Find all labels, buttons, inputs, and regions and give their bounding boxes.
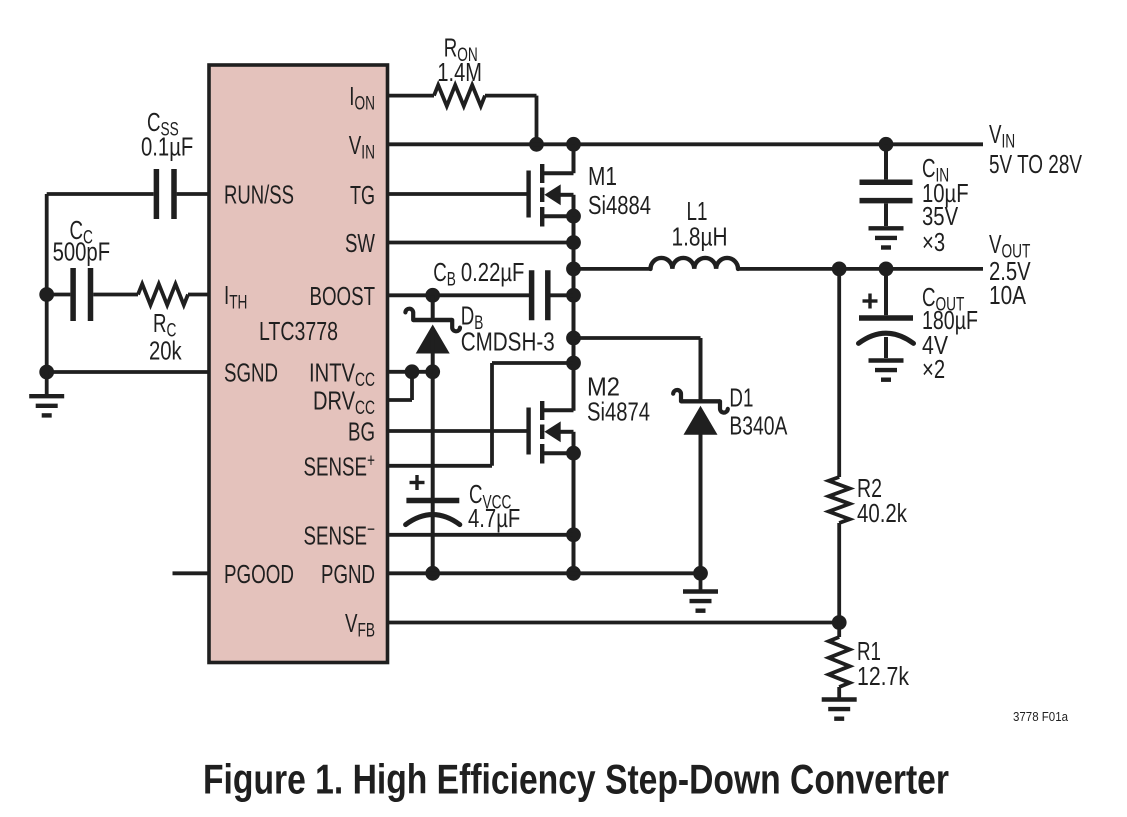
- svg-text:V: V: [989, 119, 1002, 149]
- svg-text:20k: 20k: [149, 336, 182, 366]
- svg-text:SENSE: SENSE: [304, 520, 368, 550]
- svg-text:10A: 10A: [989, 280, 1027, 310]
- svg-text:M1: M1: [588, 161, 617, 191]
- svg-text:PGND: PGND: [321, 559, 375, 589]
- svg-text:V: V: [989, 229, 1002, 259]
- svg-text:1.4M: 1.4M: [437, 57, 482, 87]
- svg-text:PGOOD: PGOOD: [224, 559, 294, 589]
- svg-text:40.2k: 40.2k: [857, 498, 908, 528]
- svg-text:×2: ×2: [922, 354, 945, 384]
- svg-text:LTC3778: LTC3778: [259, 316, 338, 346]
- svg-text:IN: IN: [361, 142, 375, 163]
- svg-text:B340A: B340A: [729, 411, 787, 441]
- svg-text:ON: ON: [355, 94, 376, 115]
- svg-text:5V TO 28V: 5V TO 28V: [989, 149, 1082, 179]
- svg-text:RUN/SS: RUN/SS: [224, 180, 294, 210]
- svg-text:INTV: INTV: [309, 357, 356, 387]
- svg-text:B: B: [447, 270, 456, 291]
- svg-text:×3: ×3: [922, 227, 945, 257]
- svg-text:SW: SW: [345, 228, 375, 258]
- svg-text:V: V: [349, 130, 362, 160]
- svg-text:SGND: SGND: [224, 357, 278, 387]
- svg-text:0.1µF: 0.1µF: [141, 131, 193, 161]
- svg-text:12.7k: 12.7k: [857, 661, 910, 691]
- svg-text:BOOST: BOOST: [310, 281, 376, 311]
- svg-text:V: V: [345, 608, 358, 638]
- svg-text:CC: CC: [355, 370, 375, 391]
- svg-text:C: C: [433, 257, 447, 287]
- svg-text:Si4884: Si4884: [588, 190, 651, 220]
- svg-text:D1: D1: [729, 383, 753, 413]
- svg-text:DRV: DRV: [313, 386, 355, 416]
- svg-text:CMDSH-3: CMDSH-3: [461, 326, 555, 356]
- svg-text:+: +: [367, 450, 375, 471]
- svg-text:3778 F01a: 3778 F01a: [1013, 709, 1069, 724]
- svg-text:Si4874: Si4874: [587, 397, 650, 427]
- svg-text:R: R: [153, 308, 167, 338]
- svg-text:TH: TH: [229, 293, 247, 314]
- svg-text:BG: BG: [348, 417, 375, 447]
- svg-text:SENSE: SENSE: [304, 451, 368, 481]
- svg-text:FB: FB: [358, 621, 376, 642]
- svg-text:500pF: 500pF: [53, 237, 111, 267]
- svg-text:0.22µF: 0.22µF: [461, 257, 525, 287]
- svg-text:−: −: [367, 519, 375, 540]
- svg-text:TG: TG: [350, 180, 375, 210]
- svg-text:4.7µF: 4.7µF: [468, 503, 520, 533]
- svg-text:Figure 1. High Efficiency Step: Figure 1. High Efficiency Step-Down Conv…: [203, 755, 949, 802]
- svg-text:1.8µH: 1.8µH: [672, 222, 728, 252]
